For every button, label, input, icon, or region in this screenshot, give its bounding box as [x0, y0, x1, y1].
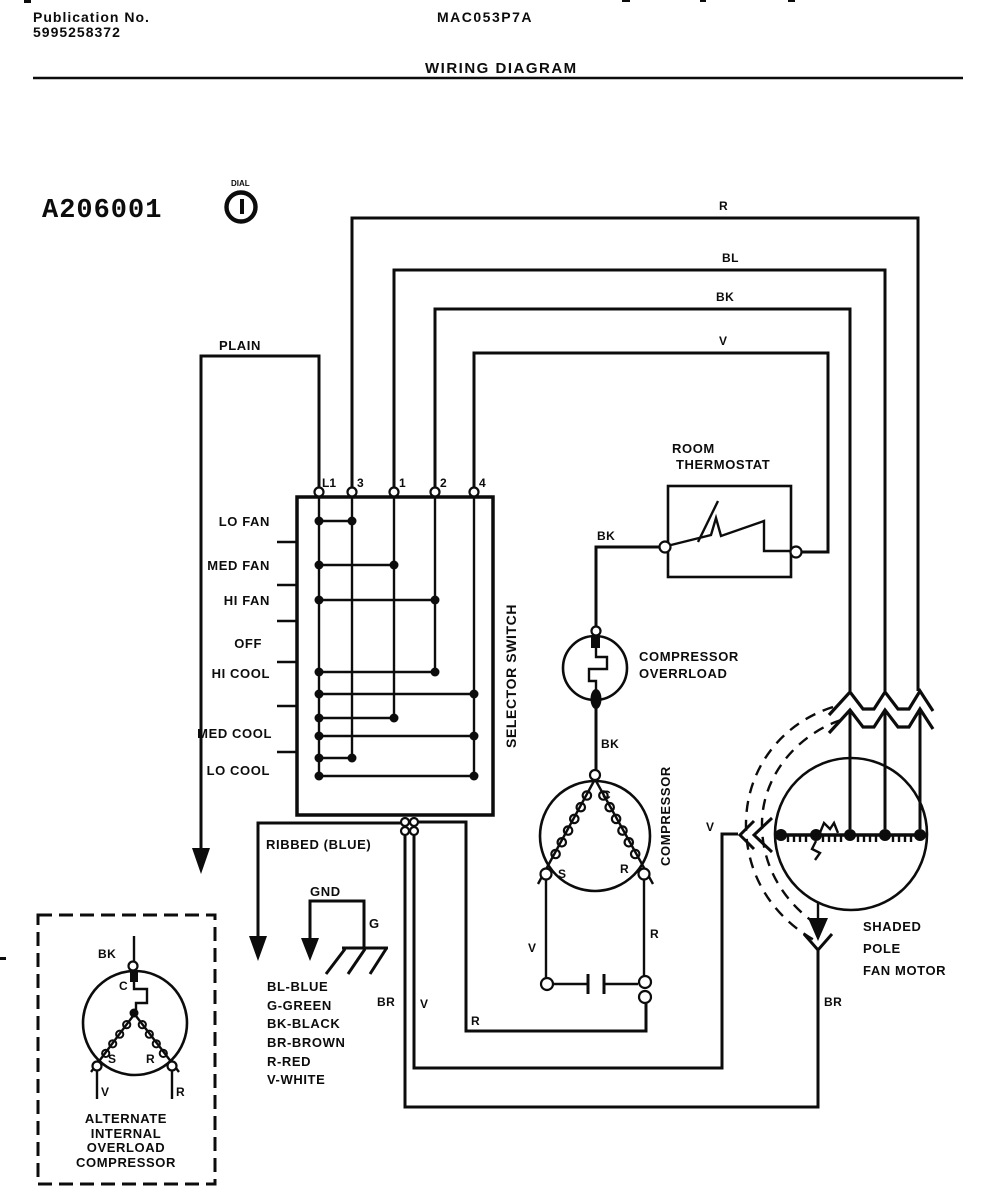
wire RIBBED (BLUE) lead [258, 823, 401, 936]
header rule [33, 77, 963, 79]
arrowhead PLAIN lead [192, 848, 210, 874]
column L1 wire [318, 496, 320, 776]
fan motor plug chevrons (left) [740, 818, 772, 852]
compressor C terminal [590, 770, 611, 802]
svg-text:V: V [719, 334, 727, 348]
terminal L1 [315, 476, 337, 497]
svg-text:5995258372: 5995258372 [33, 24, 121, 40]
svg-text:Publication No.: Publication No. [33, 9, 150, 25]
svg-text:S: S [558, 867, 566, 881]
MED COOL contact rows [197, 714, 478, 742]
alternate compressor start winding [91, 1016, 133, 1072]
arrowhead RIBBED lead [249, 936, 267, 961]
svg-text:BK: BK [601, 737, 619, 751]
wire V compressor S to capacitor [528, 880, 546, 978]
svg-text:BL-BLUE: BL-BLUE [267, 979, 328, 994]
thermostat right terminal [791, 547, 802, 558]
capacitor right terminals (double) [639, 976, 651, 1003]
svg-text:MED COOL: MED COOL [197, 726, 272, 741]
svg-text:FAN MOTOR: FAN MOTOR [863, 963, 946, 978]
fan motor internal protector [812, 823, 838, 860]
compressor label [658, 766, 673, 866]
svg-text:R: R [176, 1085, 185, 1099]
svg-text:R: R [620, 862, 629, 876]
svg-text:HI FAN: HI FAN [224, 593, 270, 608]
alternate compressor circle [83, 971, 187, 1075]
svg-text:1: 1 [399, 476, 406, 490]
svg-text:COMPRESSOR: COMPRESSOR [639, 649, 739, 664]
svg-text:COMPRESSOR: COMPRESSOR [658, 766, 673, 866]
alternate compressor lead V [97, 1071, 109, 1099]
wire BK overload to compressor [596, 708, 619, 770]
wire BL top loop [394, 251, 885, 691]
wire colour legend [267, 979, 345, 1087]
svg-text:COMPRESSOR: COMPRESSOR [76, 1155, 176, 1170]
fan motor lead break upper band [829, 691, 933, 715]
svg-text:ALTERNATE: ALTERNATE [85, 1111, 167, 1126]
alternate compressor dashed box [38, 915, 215, 1184]
column 2 wire [434, 496, 436, 672]
shaded pole fan motor label [863, 919, 946, 978]
alternate compressor R terminal [146, 1052, 177, 1071]
svg-text:SELECTOR SWITCH: SELECTOR SWITCH [503, 604, 519, 748]
svg-text:MED FAN: MED FAN [207, 558, 270, 573]
selector position tick marks [277, 542, 297, 752]
alternate compressor run winding [136, 1016, 179, 1072]
svg-text:BK-BLACK: BK-BLACK [267, 1016, 340, 1031]
svg-text:INTERNAL: INTERNAL [91, 1126, 162, 1141]
thermostat switch blade [671, 501, 790, 551]
alternate compressor caption [76, 1111, 176, 1170]
svg-text:V-WHITE: V-WHITE [267, 1072, 325, 1087]
svg-text:V: V [528, 941, 536, 955]
overload element [589, 636, 607, 709]
svg-text:OFF: OFF [234, 636, 262, 651]
room thermostat label [672, 441, 770, 472]
svg-text:PLAIN: PLAIN [219, 338, 261, 353]
fan motor lead break lower band [829, 709, 933, 733]
svg-text:HI COOL: HI COOL [212, 666, 270, 681]
svg-text:ROOM: ROOM [672, 441, 715, 456]
svg-text:R: R [650, 927, 659, 941]
selector switch box [297, 497, 493, 815]
alternate compressor C terminal [119, 962, 138, 994]
svg-text:L1: L1 [322, 476, 336, 490]
overload top terminal [592, 627, 601, 636]
svg-text:SHADED: SHADED [863, 919, 922, 934]
compressor overload label [639, 649, 739, 681]
wire BK top loop [435, 290, 850, 691]
terminal 4 [470, 476, 487, 497]
svg-text:G-GREEN: G-GREEN [267, 998, 332, 1013]
selector switch label [503, 604, 519, 748]
alternate compressor S terminal [93, 1052, 117, 1071]
wire PLAIN (line cord lead) [201, 338, 319, 848]
compressor circle [540, 781, 650, 891]
fan motor bottom plug arrow [804, 903, 832, 950]
svg-text:WIRING DIAGRAM: WIRING DIAGRAM [425, 60, 578, 77]
svg-text:OVERRLOAD: OVERRLOAD [639, 666, 727, 681]
diagram id A206001 [42, 196, 162, 226]
fan motor winding taps [775, 829, 926, 841]
svg-text:4: 4 [479, 476, 486, 490]
fan motor circle [775, 758, 927, 910]
svg-text:R: R [471, 1014, 480, 1028]
svg-text:3: 3 [357, 476, 364, 490]
svg-text:BR: BR [377, 995, 395, 1009]
thermostat left terminal [660, 542, 671, 553]
wire BK thermostat to overload [596, 529, 659, 626]
terminal 2 [431, 476, 448, 497]
svg-text:R: R [719, 199, 728, 213]
room thermostat box [668, 486, 791, 577]
fan motor lead wires into motor [850, 712, 920, 829]
OFF position label [234, 636, 262, 651]
alternate compressor BK lead [98, 936, 134, 961]
LO COOL contact rows [207, 754, 479, 781]
svg-text:BK: BK [716, 290, 734, 304]
svg-text:V: V [101, 1085, 109, 1099]
compressor start winding [538, 781, 594, 884]
svg-text:S: S [108, 1052, 116, 1066]
alternate internal overload element [130, 970, 148, 1018]
fan motor winding bar [775, 835, 927, 842]
svg-text:GND: GND [310, 884, 341, 899]
header model number [437, 9, 533, 25]
wire R compressor R to capacitor [644, 880, 659, 976]
svg-text:A206001: A206001 [42, 196, 162, 226]
svg-text:BR: BR [824, 995, 842, 1009]
capacitor left terminal [541, 978, 553, 990]
wire R from connector to capacitor [418, 822, 646, 1031]
LO FAN contact row [219, 514, 357, 529]
svg-text:POLE: POLE [863, 941, 901, 956]
top edge scan specks [0, 0, 795, 960]
alternate compressor lead R [172, 1071, 185, 1099]
compressor S terminal [541, 867, 567, 881]
wire BR from connector to fan motor (bottom run) [377, 835, 842, 1107]
run capacitor [553, 974, 638, 994]
fan motor frame dashed arcs [746, 707, 841, 940]
compressor run winding [596, 781, 653, 884]
column 3 wire [351, 496, 353, 758]
arrowhead GND lead [301, 938, 319, 961]
HI COOL contact rows [212, 666, 479, 699]
terminal 1 [390, 476, 407, 497]
svg-text:THERMOSTAT: THERMOSTAT [676, 457, 770, 472]
svg-text:R-RED: R-RED [267, 1054, 311, 1069]
ground symbol [326, 948, 388, 974]
svg-text:V: V [706, 820, 714, 834]
svg-text:R: R [146, 1052, 155, 1066]
wire GND lead [310, 884, 380, 948]
wire V from connector to fan motor [414, 820, 738, 1068]
svg-text:LO FAN: LO FAN [219, 514, 270, 529]
wire V top loop [474, 334, 828, 552]
svg-text:BK: BK [98, 947, 116, 961]
svg-text:BL: BL [722, 251, 739, 265]
wire R top loop [352, 199, 918, 691]
header publication number [33, 9, 150, 40]
svg-text:OVERLOAD: OVERLOAD [87, 1140, 165, 1155]
svg-text:G: G [369, 916, 380, 931]
column 4 wire [473, 496, 475, 776]
svg-text:MAC053P7A: MAC053P7A [437, 9, 533, 25]
svg-text:BK: BK [597, 529, 615, 543]
dial icon [227, 179, 256, 222]
svg-text:RIBBED (BLUE): RIBBED (BLUE) [266, 837, 371, 852]
svg-text:LO COOL: LO COOL [207, 763, 270, 778]
HI FAN contact row [224, 593, 440, 608]
svg-text:C: C [119, 979, 128, 993]
svg-text:DIAL: DIAL [231, 179, 250, 188]
svg-text:BR-BROWN: BR-BROWN [267, 1035, 345, 1050]
connector plug (4 pins) under selector switch [401, 818, 418, 835]
terminal 3 [348, 476, 365, 497]
svg-text:V: V [420, 997, 428, 1011]
title WIRING DIAGRAM [425, 60, 578, 77]
compressor overload circle [563, 636, 627, 700]
compressor R terminal [620, 862, 650, 880]
column 1 wire [393, 496, 395, 718]
svg-text:2: 2 [440, 476, 447, 490]
MED FAN contact row [207, 558, 398, 573]
